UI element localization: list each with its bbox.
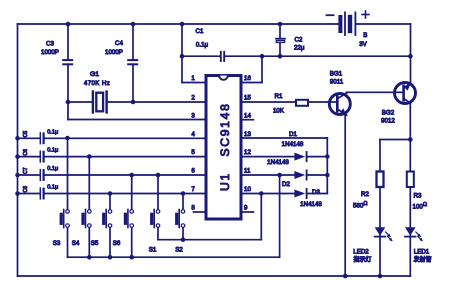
svg-text:C3: C3 [46, 41, 54, 48]
svg-text:S1: S1 [149, 247, 157, 254]
svg-text:R1: R1 [275, 93, 283, 100]
svg-text:R2: R2 [361, 191, 369, 198]
svg-text:S2: S2 [175, 247, 183, 254]
svg-text:7: 7 [191, 186, 195, 193]
svg-text:C4: C4 [115, 40, 123, 47]
svg-text:BG1: BG1 [330, 71, 343, 78]
svg-text:8: 8 [191, 205, 195, 212]
svg-text:0.1μ: 0.1μ [196, 42, 209, 49]
svg-text:13: 13 [244, 131, 251, 138]
svg-text:1000P: 1000P [41, 49, 59, 56]
svg-text:BG2: BG2 [382, 110, 395, 117]
svg-text:1N4148: 1N4148 [267, 159, 289, 166]
svg-text:C2: C2 [295, 37, 303, 44]
svg-text:C5: C5 [23, 131, 29, 138]
svg-text:LED2: LED2 [353, 249, 369, 256]
svg-text:100Ω: 100Ω [413, 202, 427, 211]
svg-text:U1: U1 [218, 172, 232, 191]
svg-text:0.1μ: 0.1μ [47, 185, 58, 191]
svg-text:11: 11 [244, 168, 251, 175]
svg-text:2: 2 [191, 95, 195, 102]
svg-text:0.1μ: 0.1μ [47, 148, 58, 154]
svg-text:SC9148: SC9148 [218, 102, 232, 156]
svg-text:9011: 9011 [330, 79, 344, 86]
svg-text:C1: C1 [196, 28, 204, 35]
svg-text:R3: R3 [414, 193, 422, 200]
svg-text:G1: G1 [90, 71, 99, 78]
svg-text:16: 16 [244, 75, 251, 82]
svg-text:22μ: 22μ [294, 44, 305, 51]
svg-text:D1: D1 [289, 131, 297, 138]
svg-text:5: 5 [191, 149, 195, 156]
svg-text:1N4148: 1N4148 [300, 201, 322, 208]
svg-text:3V: 3V [359, 41, 367, 48]
svg-text:LED1: LED1 [414, 249, 430, 256]
svg-text:发射管: 发射管 [413, 255, 431, 263]
svg-text:10K: 10K [273, 108, 285, 115]
svg-text:0.1μ: 0.1μ [47, 129, 58, 135]
svg-text:10: 10 [244, 186, 251, 193]
svg-text:S3: S3 [53, 240, 61, 247]
svg-text:9012: 9012 [381, 118, 395, 125]
svg-text:D2: D2 [282, 181, 290, 188]
svg-text:S6: S6 [113, 240, 121, 247]
svg-text:3: 3 [191, 112, 195, 119]
svg-text:1000P: 1000P [105, 49, 123, 56]
svg-text:6: 6 [191, 168, 195, 175]
svg-text:1: 1 [191, 75, 195, 82]
svg-text:B: B [363, 32, 367, 39]
svg-text:C8: C8 [23, 186, 29, 193]
svg-text:4: 4 [191, 131, 195, 138]
svg-text:9: 9 [244, 205, 248, 212]
svg-text:S4: S4 [72, 240, 80, 247]
svg-text:C6: C6 [23, 149, 29, 156]
svg-text:S5: S5 [91, 240, 99, 247]
svg-text:C7: C7 [23, 167, 29, 174]
svg-text:470K Hz: 470K Hz [84, 80, 110, 87]
svg-text:1N4148: 1N4148 [282, 141, 304, 148]
svg-text:0.1μ: 0.1μ [47, 166, 58, 172]
svg-text:14: 14 [244, 112, 251, 119]
svg-text:D3: D3 [312, 189, 320, 196]
svg-text:560Ω: 560Ω [353, 201, 367, 210]
svg-text:15: 15 [244, 95, 251, 102]
svg-text:12: 12 [244, 149, 251, 156]
svg-text:指示灯: 指示灯 [353, 255, 371, 263]
